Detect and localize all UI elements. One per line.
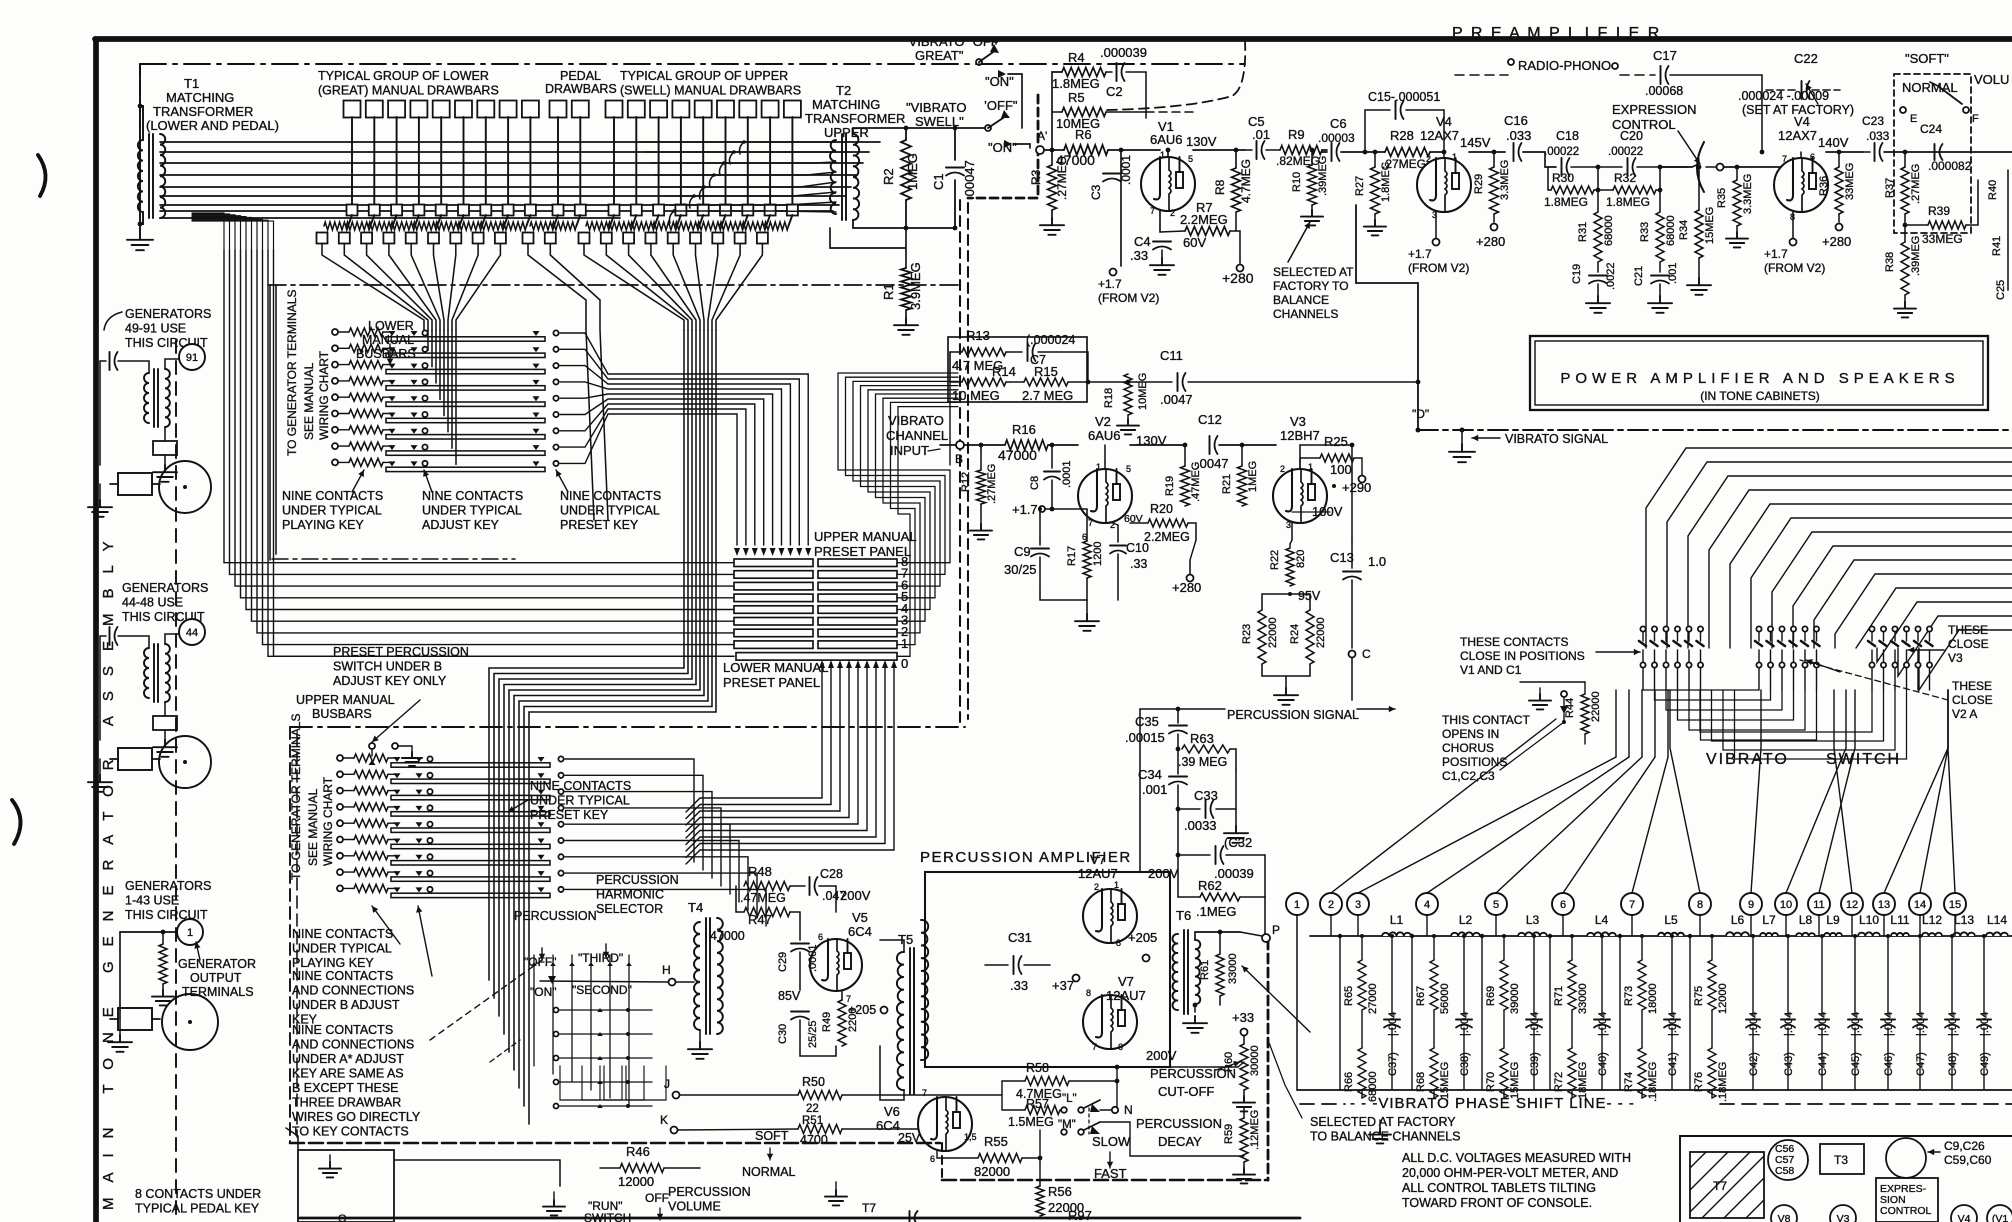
- wire T1 left vertical: [139, 64, 141, 224]
- wire R8 down: [1230, 212, 1236, 231]
- pedal drawbar 1: [523, 101, 567, 244]
- label C29 .0001: [777, 944, 819, 972]
- svg-text:6AU6: 6AU6: [1088, 428, 1121, 443]
- svg-text:1.8MEG: 1.8MEG: [1380, 162, 1392, 202]
- svg-text:.33: .33: [1130, 557, 1147, 571]
- label C12 .0047: [1196, 412, 1229, 471]
- svg-text:.27MEG: .27MEG: [1910, 164, 1922, 204]
- wire C23 on: [1884, 151, 2012, 153]
- svg-text:OPENS IN: OPENS IN: [1442, 727, 1499, 741]
- svg-text:2.7 MEG: 2.7 MEG: [1022, 388, 1073, 403]
- label R34 15MEG: [1678, 207, 1716, 244]
- svg-text:47000: 47000: [710, 929, 745, 943]
- label C21 .001: [1633, 263, 1679, 286]
- svg-text:HARMONIC: HARMONIC: [596, 888, 664, 902]
- svg-text:AND CONNECTIONS: AND CONNECTIONS: [292, 1038, 414, 1052]
- svg-text:12AX7: 12AX7: [1778, 128, 1817, 143]
- circle generator 1 number: [177, 919, 203, 945]
- pin labels V6: [922, 1088, 977, 1164]
- svg-text:1MEG: 1MEG: [1247, 461, 1259, 492]
- svg-text:R70: R70: [1485, 1072, 1497, 1092]
- svg-text:UPPER MANUAL: UPPER MANUAL: [296, 693, 395, 707]
- resistor R71 divider: [1568, 936, 1576, 1034]
- resistor R63: [1176, 745, 1236, 770]
- resistor R74 divider: [1638, 1034, 1646, 1098]
- svg-text:|.004: |.004: [1915, 1012, 1927, 1036]
- svg-text:C2: C2: [1106, 84, 1123, 99]
- label R19 .47MEG: [1164, 462, 1202, 502]
- wire funnel lower drawbars to bundle: [322, 244, 500, 330]
- label R12 .27MEG: [960, 464, 998, 504]
- dashline radio-phono: [1455, 74, 1655, 76]
- transformer T7 box: [1690, 1152, 1764, 1218]
- inductor L12: [1921, 928, 1943, 936]
- svg-text:1: 1: [1160, 150, 1165, 160]
- svg-text:T1: T1: [184, 76, 199, 91]
- tone-generator/preamp dashed vertical boundary: [960, 200, 968, 722]
- lower manual drawbar 2: [339, 101, 383, 244]
- wire stub hook 8: [670, 209, 676, 223]
- svg-text:THESE: THESE: [1952, 679, 1992, 693]
- switch R44 contact: [1560, 691, 1568, 724]
- svg-text:TO GENERATOR TERMINALS: TO GENERATOR TERMINALS: [289, 714, 303, 880]
- label C42 .004: [1748, 1012, 1760, 1076]
- svg-text:7: 7: [922, 1088, 927, 1098]
- label OFF percussion: [524, 951, 623, 969]
- vibrato signal dashdot line: [1418, 429, 2012, 431]
- wire R67 leads: [1432, 934, 1436, 1098]
- wire percussion signal: [1140, 706, 1395, 712]
- svg-text:1MEG: 1MEG: [905, 153, 920, 190]
- svg-text:WIRES GO DIRECTLY: WIRES GO DIRECTLY: [292, 1110, 421, 1124]
- svg-text:UPPER MANUAL: UPPER MANUAL: [814, 529, 917, 544]
- label C47 .004: [1915, 1012, 1927, 1076]
- svg-text:(LOWER AND PEDAL): (LOWER AND PEDAL): [146, 118, 279, 133]
- ground gen 44-48: [153, 730, 177, 757]
- label +1.7 from V2 (V4a): [1408, 247, 1469, 275]
- svg-text:L13: L13: [1954, 913, 1974, 927]
- svg-text:ADJUST KEY ONLY: ADJUST KEY ONLY: [333, 674, 447, 688]
- svg-text:CUT-OFF: CUT-OFF: [1158, 1084, 1214, 1099]
- wire plate node R8: [1234, 148, 1239, 168]
- svg-text:.00003: .00003: [1318, 131, 1355, 145]
- label ON great: [985, 74, 1014, 89]
- label C30 25/25: [777, 1020, 819, 1048]
- tube V1: [1141, 157, 1195, 211]
- svg-text:30000: 30000: [1249, 1045, 1261, 1076]
- svg-text:J: J: [664, 1077, 670, 1091]
- lower manual busbar row 7: [332, 426, 559, 439]
- label C1 .00047: [931, 160, 977, 200]
- preset panel bar row 2 right: [818, 629, 897, 637]
- svg-text:C38): C38): [1459, 1052, 1471, 1076]
- capacitor C30: [791, 990, 809, 1056]
- upper manual busbar row 4: [337, 803, 564, 816]
- svg-text:C16: C16: [1504, 113, 1528, 128]
- junction T1 bottom: [138, 222, 143, 227]
- svg-text:4: 4: [1424, 899, 1430, 911]
- svg-text:PLAYING KEY: PLAYING KEY: [282, 518, 364, 532]
- wire R75 leads: [1710, 934, 1714, 1098]
- label 100V: [1292, 504, 1343, 540]
- node C: [1349, 647, 1372, 700]
- label R62 .1MEG: [1196, 878, 1236, 919]
- resistor R12: [977, 445, 986, 504]
- svg-text:L2: L2: [1459, 913, 1473, 927]
- svg-text:R18: R18: [1103, 388, 1115, 408]
- svg-text:R16: R16: [1012, 422, 1036, 437]
- ground bottom 1: [543, 1192, 565, 1215]
- wire C8 down node: [1046, 507, 1087, 512]
- svg-text:7: 7: [1629, 899, 1635, 911]
- label PERCUSSION AMPLIFIER: [920, 849, 1132, 866]
- wire stub hook 6: [690, 194, 696, 208]
- wire V4b plate: [1801, 152, 1863, 158]
- label C32 .00039: [1214, 835, 1254, 881]
- preset panel bar row 5 left: [734, 594, 813, 602]
- capacitor C32: [1176, 809, 1265, 864]
- svg-text:.1MEG: .1MEG: [1196, 904, 1236, 919]
- wire vibrato switch feed 9: [1814, 560, 2012, 648]
- label preset digit 2: [901, 624, 908, 639]
- svg-text:LOWER: LOWER: [368, 319, 414, 333]
- svg-text:1.8MEG: 1.8MEG: [1544, 195, 1588, 209]
- wire feedback right: [1145, 72, 1147, 118]
- svg-text:THREE DRAWBAR: THREE DRAWBAR: [292, 1096, 401, 1110]
- arrow R61 P: [1242, 966, 1310, 1032]
- label VIBRATO SWELL: [906, 100, 966, 129]
- svg-text:R41: R41: [1991, 236, 2003, 256]
- label V5 6C4: [848, 910, 872, 939]
- label L12: [1922, 913, 1942, 927]
- svg-text:2.2MEG: 2.2MEG: [1144, 530, 1190, 544]
- svg-text:FACTORY TO: FACTORY TO: [1273, 279, 1349, 293]
- wire T1 secondary bus line 7: [160, 204, 839, 206]
- wire C28 down: [835, 886, 837, 912]
- label T4: [688, 900, 703, 915]
- label R33 68000: [1639, 215, 1677, 246]
- svg-text:R58: R58: [1026, 1061, 1049, 1075]
- lower manual drawbar 6: [428, 101, 472, 244]
- svg-text:C37): C37): [1387, 1052, 1399, 1076]
- svg-text:C25: C25: [1995, 280, 2007, 300]
- svg-text:33MEG: 33MEG: [1844, 163, 1856, 200]
- wire R1 top: [830, 228, 906, 268]
- wire B to R16: [964, 444, 1005, 446]
- lower manual drawbar 3: [361, 101, 405, 244]
- svg-text:L14: L14: [1987, 913, 2007, 927]
- label L10: [1859, 913, 1879, 927]
- svg-text:TERMINALS: TERMINALS: [182, 985, 254, 999]
- ground R10: [1301, 205, 1323, 225]
- svg-text:E: E: [1910, 113, 1917, 125]
- svg-text:UNDER TYPICAL: UNDER TYPICAL: [292, 942, 392, 956]
- upper manual busbar row 3: [337, 787, 564, 800]
- wire T1 secondary common: [160, 217, 620, 219]
- capacitor C18: [1562, 158, 1623, 176]
- label R23 22000: [1241, 617, 1279, 648]
- svg-text:(GREAT) MANUAL DRAWBARS: (GREAT) MANUAL DRAWBARS: [318, 84, 499, 98]
- svg-text:C22: C22: [1794, 51, 1818, 66]
- label R69 39000: [1485, 983, 1521, 1014]
- pin labels V1: [1150, 150, 1193, 218]
- circle V3 bottom: [1830, 1205, 1856, 1222]
- box T3: [1820, 1144, 1864, 1174]
- svg-text:C9: C9: [1014, 544, 1031, 559]
- dashed boundary vertical left of drawbars: [139, 64, 141, 170]
- label +33: [1232, 1010, 1254, 1036]
- wire R23 R24 gnd: [1262, 664, 1310, 705]
- pin labels V4b: [1782, 152, 1815, 222]
- svg-text:UNDER A* ADJUST: UNDER A* ADJUST: [292, 1052, 404, 1066]
- wire vibrato switch feed 14: [1919, 630, 2012, 690]
- svg-text:R19: R19: [1164, 476, 1176, 496]
- resistor R69 divider: [1500, 936, 1508, 1034]
- wire bundle lower drawbar vertical: [424, 330, 456, 464]
- label C43 .004: [1783, 1012, 1795, 1076]
- capacitor C20: [1628, 158, 1689, 176]
- label +280 V2: [1172, 540, 1201, 595]
- svg-text:+280: +280: [1172, 580, 1201, 595]
- label C9 C26 C59 C60: [1928, 1139, 1992, 1167]
- bottom right console box: [1680, 1136, 2012, 1222]
- node circle 13: [1873, 893, 1895, 915]
- svg-text:1: 1: [1096, 462, 1101, 472]
- svg-text:8 CONTACTS UNDER: 8 CONTACTS UNDER: [135, 1187, 261, 1201]
- svg-text:R37: R37: [1884, 178, 1896, 198]
- svg-text:2: 2: [1170, 208, 1175, 218]
- svg-text:TO BALANCE CHANNELS: TO BALANCE CHANNELS: [1310, 1130, 1461, 1144]
- svg-text:R27: R27: [1354, 176, 1366, 196]
- svg-text:3.3MEG: 3.3MEG: [1499, 160, 1511, 200]
- wire T1 primary top: [140, 106, 143, 140]
- label C31 .33: [1008, 930, 1032, 993]
- wire vibrato line top right: [1444, 302, 1446, 352]
- svg-text:49-91 USE: 49-91 USE: [125, 322, 186, 336]
- svg-text:C: C: [1362, 647, 1371, 661]
- preset panel bar row 1 right: [818, 641, 897, 649]
- preset panel bar row 6 right: [818, 582, 897, 590]
- node circle 3: [1347, 893, 1369, 915]
- capacitor C45: [1848, 934, 1862, 1090]
- box around R13 network: [948, 337, 1087, 402]
- svg-text:13: 13: [1878, 899, 1890, 911]
- svg-text:NINE CONTACTS: NINE CONTACTS: [292, 927, 393, 941]
- svg-text:PERCUSSION SIGNAL: PERCUSSION SIGNAL: [1227, 708, 1359, 722]
- svg-text:V3: V3: [1837, 1213, 1850, 1222]
- pin labels V4a: [1426, 152, 1457, 220]
- svg-text:SLOW: SLOW: [1092, 1134, 1131, 1149]
- svg-text:VOLU: VOLU: [1974, 72, 2009, 87]
- label R71 33000: [1553, 983, 1589, 1014]
- label R35 3.3MEG: [1716, 174, 1754, 214]
- svg-text:|.004: |.004: [1947, 1012, 1959, 1036]
- svg-text:NINE CONTACTS: NINE CONTACTS: [292, 1023, 393, 1037]
- svg-text:PERCUSSION: PERCUSSION: [596, 873, 679, 887]
- resistor R46: [600, 1164, 700, 1173]
- svg-text:.0033: .0033: [1184, 818, 1217, 833]
- preset panel bar row 6 left: [734, 582, 813, 590]
- lower manual busbar row 6: [332, 410, 559, 423]
- svg-text:.27MEG: .27MEG: [986, 464, 998, 504]
- svg-text:SELECTED AT: SELECTED AT: [1273, 265, 1354, 279]
- svg-text:PERCUSSION: PERCUSSION: [668, 1185, 751, 1199]
- upper manual drawbar 2: [601, 101, 645, 244]
- svg-text:.39MEG: .39MEG: [1317, 156, 1329, 196]
- label R57 1.5MEG: [1008, 1097, 1054, 1129]
- wire R71 leads: [1570, 934, 1574, 1098]
- svg-text:1.8MEG: 1.8MEG: [1052, 76, 1100, 91]
- svg-text:R15: R15: [1034, 364, 1058, 379]
- label +280 V1: [1222, 270, 1254, 286]
- label ALL DC VOLTAGES: [1402, 1151, 1631, 1210]
- pin labels V7l: [1086, 988, 1123, 1052]
- label R1 3.9MEG: [881, 262, 923, 310]
- capacitor C24: [1920, 122, 1943, 160]
- ground R3: [1040, 210, 1064, 235]
- wire gen secondary 44-48: [165, 634, 178, 644]
- lower manual drawbar 7: [450, 101, 494, 244]
- label 85V: [778, 989, 801, 1003]
- label +290: [1332, 476, 1371, 496]
- node circle 14: [1909, 893, 1931, 915]
- svg-text:C15-.000051: C15-.000051: [1368, 90, 1440, 104]
- label C41 .004: [1667, 1012, 1679, 1076]
- svg-text:.33: .33: [1010, 978, 1028, 993]
- label 25V: [898, 1131, 921, 1145]
- node circle 15: [1944, 893, 1966, 915]
- svg-text:OUTPUT: OUTPUT: [190, 971, 242, 985]
- label R9 82MEG: [1276, 127, 1320, 168]
- svg-text:UNDER TYPICAL: UNDER TYPICAL: [530, 794, 630, 808]
- svg-text:85V: 85V: [778, 989, 801, 1003]
- svg-text:+205: +205: [848, 1003, 876, 1017]
- label R59 .12MEG: [1223, 1110, 1261, 1150]
- circle generator number 49-91: [179, 344, 205, 370]
- svg-text:R9: R9: [1288, 127, 1305, 142]
- label LOWER MANUAL BUSBARS: [356, 319, 416, 361]
- label preset digit 4: [901, 601, 908, 616]
- svg-text:GENERATORS: GENERATORS: [125, 879, 211, 893]
- svg-text:C13: C13: [1330, 550, 1354, 565]
- svg-text:CLOSE IN POSITIONS: CLOSE IN POSITIONS: [1460, 649, 1585, 663]
- resistor R18: [1124, 374, 1132, 415]
- svg-text:"THIRD": "THIRD": [578, 951, 623, 965]
- label R70 .15MEG: [1485, 1062, 1521, 1102]
- svg-text:C19: C19: [1571, 264, 1583, 284]
- svg-text:SELECTED AT FACTORY: SELECTED AT FACTORY: [1310, 1115, 1456, 1129]
- svg-text:R60: R60: [1223, 1052, 1235, 1072]
- svg-text:R44: R44: [1564, 698, 1576, 718]
- svg-text:.39 MEG: .39 MEG: [1178, 755, 1227, 769]
- resistor R2: [901, 128, 911, 228]
- svg-text:.001: .001: [1667, 263, 1679, 284]
- resistor R20: [1130, 519, 1196, 540]
- svg-text:T4: T4: [688, 900, 703, 915]
- label nine contacts preset key: [560, 489, 661, 532]
- label C2 000039: [1100, 45, 1147, 99]
- label R3 .27MEG: [1029, 156, 1069, 200]
- preset panel bar row 1 left: [734, 641, 813, 649]
- transformer generator 44-48: [144, 644, 170, 702]
- svg-text:V7: V7: [1090, 852, 1106, 867]
- svg-text:(SWELL) MANUAL DRAWBARS: (SWELL) MANUAL DRAWBARS: [620, 84, 801, 98]
- svg-text:|.004: |.004: [1667, 1012, 1679, 1036]
- wire stub hook 5: [700, 185, 706, 199]
- punch mark lower: [12, 800, 21, 844]
- wire R55 node: [1022, 1130, 1042, 1160]
- label R67 56000: [1415, 983, 1451, 1014]
- svg-text:R8: R8: [1213, 179, 1227, 195]
- lower manual busbar row 4: [332, 377, 559, 390]
- arrow b adjust upper: [416, 906, 432, 976]
- preset panel bar row 4 right: [818, 606, 897, 614]
- preset panel bar row 5 right: [818, 594, 897, 602]
- capacitor C12: [1185, 436, 1242, 454]
- upper manual busbar row 8: [337, 868, 564, 881]
- label R10 39MEG: [1291, 156, 1329, 196]
- svg-text:C59,C60: C59,C60: [1944, 1153, 1992, 1167]
- svg-text:KEY ARE SAME AS: KEY ARE SAME AS: [292, 1067, 404, 1081]
- wire section node 1: [1338, 934, 1342, 1090]
- capacitor C48: [1945, 934, 1959, 1090]
- svg-text:RADIO-PHONO: RADIO-PHONO: [1518, 58, 1611, 73]
- ground R18: [1117, 415, 1139, 434]
- ground R44 area: [1520, 682, 1585, 709]
- svg-text:C31: C31: [1008, 930, 1032, 945]
- svg-text:140V: 140V: [1818, 135, 1849, 150]
- wire bottom bus: [300, 1217, 1300, 1220]
- svg-text:V3: V3: [1948, 651, 1963, 665]
- svg-text:(C32: (C32: [1224, 835, 1252, 850]
- label POWER AMPLIFIER AND SPEAKERS: [1560, 370, 1959, 403]
- svg-text:.39MEG: .39MEG: [1910, 236, 1922, 276]
- wire vibrato nest a: [1643, 690, 1817, 740]
- svg-text:L12: L12: [1922, 913, 1942, 927]
- label PERCUSSION DECAY: [1136, 1116, 1222, 1149]
- label VIBRATO OFF GREAT: [904, 34, 1004, 63]
- wire D vertical: [1356, 205, 1418, 430]
- wire A' to R6: [1044, 149, 1064, 151]
- svg-text:L7: L7: [1762, 913, 1776, 927]
- label nine contacts preset key (upper): [530, 779, 631, 822]
- inductor L2: [1450, 928, 1481, 936]
- circle V8: [1771, 1205, 1797, 1222]
- percussion region dashed boundary right: [1267, 940, 1270, 1180]
- wire feedback left: [1050, 72, 1062, 152]
- circle C56 C57 C58: [1768, 1140, 1808, 1180]
- svg-text:.000039: .000039: [1100, 45, 1147, 60]
- resistor R36: [1835, 150, 1843, 214]
- label +1.7 V2: [1012, 502, 1045, 517]
- label R65 27000: [1343, 983, 1379, 1014]
- wire vibrato switch feed 11: [1856, 588, 2012, 648]
- terminal radio-phono: [1508, 59, 1618, 69]
- wire vibrato switch feed 8: [1793, 546, 2012, 648]
- arrow lower busbars: [387, 344, 393, 365]
- label R29 33MEG: [1473, 160, 1511, 200]
- resistor R22: [1286, 540, 1294, 586]
- svg-text:39000: 39000: [1509, 983, 1521, 1014]
- label preset digit 8: [901, 554, 908, 569]
- wire C11 right up: [1240, 380, 1420, 385]
- tone wheel 44-48: [159, 736, 211, 788]
- wire gen sec bottom 44-48: [153, 702, 177, 730]
- svg-text:R71: R71: [1553, 986, 1565, 1006]
- node P: [1240, 923, 1280, 942]
- ground magnet 1-43: [108, 1018, 132, 1052]
- label R39 33MEG: [1922, 204, 1963, 246]
